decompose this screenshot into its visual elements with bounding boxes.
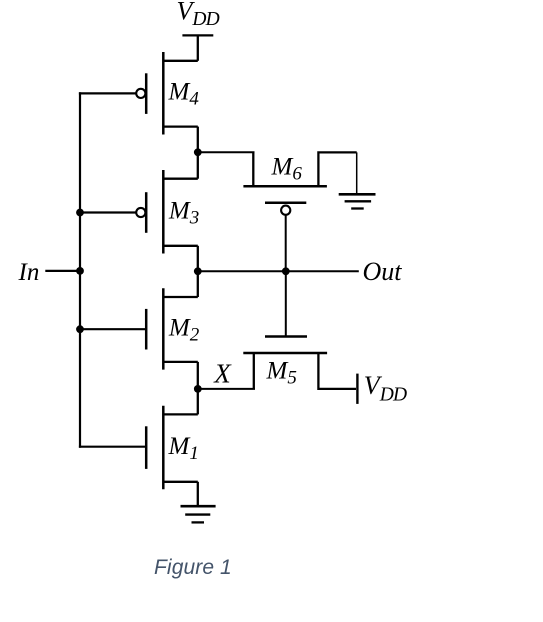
svg-text:Out: Out — [363, 257, 403, 286]
wire node X to M1 drain — [197, 389, 199, 415]
ground (right of M6) — [339, 194, 376, 208]
transistor M6 (PMOS, horizontal) — [243, 152, 356, 214]
transistor M4 (PMOS) — [136, 52, 198, 135]
VDD rail bar — [182, 34, 213, 36]
wire M3 source to Out node — [197, 246, 199, 271]
node dot bus/In — [76, 267, 84, 275]
svg-text:In: In — [18, 259, 40, 286]
wire In lead — [45, 270, 80, 272]
ground (below M1) — [181, 506, 216, 522]
wire node A to M6 left terminal — [198, 151, 255, 153]
transistor M3 (PMOS) — [136, 170, 198, 254]
wire M1 source to ground — [197, 482, 199, 506]
wire Out horizontal — [198, 270, 359, 272]
wire input bus (left vertical with gate stubs) — [79, 92, 146, 448]
VDD terminal bar (right of M5) — [356, 374, 358, 404]
wire M6 gate bubble to Out — [285, 215, 287, 272]
wire VDD rail to M4 drain — [197, 35, 199, 60]
wire M6 right terminal down to ground — [356, 152, 358, 194]
node Out junction dot (center) — [282, 267, 290, 275]
svg-text:Figure 1: Figure 1 — [154, 556, 232, 579]
node dot bus/M3 gate — [76, 209, 84, 217]
wire M4 source to M3 drain through node A — [197, 127, 199, 179]
transistor M2 (NMOS) — [146, 288, 198, 369]
wire Out to M5 gate — [285, 271, 287, 336]
node A junction dot — [194, 148, 202, 156]
node X junction dot — [194, 385, 202, 393]
wire M2 source to node X — [197, 362, 199, 389]
wire node X to M5 left terminal — [198, 388, 255, 390]
transistor M5 (NMOS, horizontal) — [243, 337, 356, 389]
svg-text:X: X — [213, 359, 232, 389]
wire Out to M2 drain — [197, 271, 199, 297]
transistor M1 (NMOS) — [146, 406, 198, 490]
node dot bus/M2 gate — [76, 325, 84, 333]
node Out junction dot (left) — [194, 267, 202, 275]
